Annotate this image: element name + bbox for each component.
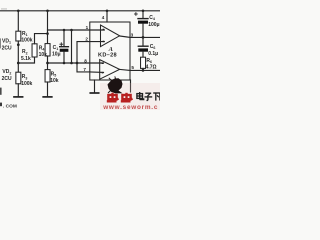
svg-text:C4: C4 (149, 15, 155, 21)
resistor R6 (141, 57, 146, 68)
label pin 3 (131, 33, 134, 38)
svg-text:5.1k: 5.1k (21, 56, 31, 62)
wire pin4 (106, 11, 108, 22)
label pin 4 (102, 15, 105, 20)
junction C1-y63 (63, 62, 66, 65)
plus mark C4 (135, 13, 138, 16)
watermark char chong1 (107, 93, 119, 102)
junction x71-y63 (70, 62, 73, 65)
label R4 10k (39, 45, 48, 58)
label C4 100u (148, 15, 159, 28)
label VD2 2CU (2, 69, 12, 82)
wire top V+ rail (0, 10, 160, 12)
label pin 5 (131, 65, 134, 70)
junction x47 (46, 32, 49, 35)
stray mark top-left (1, 8, 7, 9)
input mark A2 top (102, 63, 104, 65)
input mark A1 top (103, 29, 105, 31)
junction rail-pin4 (106, 10, 109, 13)
svg-text:100k: 100k (21, 81, 32, 87)
svg-text:100k: 100k (21, 37, 32, 43)
label R1 100k (21, 31, 32, 44)
junction R4 R5 node B (46, 62, 49, 65)
svg-text:4: 4 (102, 15, 105, 20)
svg-text:R1: R1 (22, 31, 28, 37)
wire below box right (130, 80, 132, 92)
resistor R2 (32, 44, 37, 57)
resistor R5 (45, 70, 50, 82)
svg-text:1: 1 (86, 25, 89, 30)
svg-text:10k: 10k (50, 78, 59, 84)
wire pin5 output net (130, 69, 160, 71)
svg-text:VD1: VD1 (2, 39, 11, 45)
svg-text:R6: R6 (146, 58, 152, 64)
resistor R4 (45, 44, 50, 56)
junction rail-C4 (142, 10, 145, 13)
capacitor C1 (60, 30, 69, 63)
capacitor C6 (138, 37, 148, 57)
label pin 8 (84, 58, 87, 63)
wire R6 to pin5 net (142, 68, 144, 70)
svg-text:www.seworm.c: www.seworm.c (102, 104, 158, 110)
wire R4 to R5 (47, 56, 49, 70)
label VD1 2CU (2, 39, 12, 52)
label R3 100k (21, 74, 32, 87)
wire x47 branch (47, 11, 49, 44)
label pin 1 (86, 25, 89, 30)
junction x77-y63 (76, 62, 79, 65)
corner text COM (0, 103, 17, 110)
label R6 4.7ohm (146, 58, 157, 71)
wire x71 vertical (71, 30, 73, 63)
wire left branch lower (17, 84, 19, 97)
wire pin3 output net (130, 36, 160, 38)
watermark char xia (153, 93, 160, 101)
ground G3 (90, 92, 98, 94)
svg-text:4.7Ω: 4.7Ω (146, 64, 157, 70)
wire pin1 net (48, 29, 105, 31)
label pin 2 (85, 37, 88, 42)
capacitor C4 (138, 11, 148, 38)
svg-text:10k: 10k (39, 52, 48, 58)
plus mark C1 (60, 43, 63, 46)
input mark A2 bottom (102, 72, 104, 74)
svg-text:100μ: 100μ (148, 22, 159, 28)
op-amp A2 triangle (100, 60, 120, 80)
svg-text:2: 2 (85, 37, 88, 42)
svg-text:7: 7 (83, 67, 86, 72)
svg-text:C1: C1 (53, 45, 59, 51)
junction pin1-C1 (63, 29, 66, 32)
junction rail-x47 (46, 10, 49, 13)
wire A2 input7 inside (90, 71, 104, 74)
input mark A1 bottom (103, 41, 105, 43)
cut-off mark left edge bottom (0, 88, 2, 95)
svg-text:5: 5 (131, 65, 134, 70)
svg-text:VD2: VD2 (2, 69, 11, 75)
svg-text:R5: R5 (51, 71, 57, 77)
watermark char zi (145, 93, 153, 100)
wire R5 to ground (47, 82, 49, 97)
watermark char dian (137, 92, 144, 100)
wire node B net y63 (48, 62, 104, 64)
svg-text:0.1μ: 0.1μ (148, 51, 158, 57)
wire IC ground pin (94, 80, 96, 93)
junction R6-pin5 (142, 69, 145, 72)
wire left branch middle (17, 41, 19, 72)
junction pin3-C4 (142, 36, 145, 39)
svg-text:KD–28: KD–28 (98, 53, 117, 59)
node A junction (17, 62, 20, 65)
svg-text:R2: R2 (22, 49, 28, 55)
svg-text:. COM: . COM (3, 103, 17, 109)
label A (108, 46, 113, 53)
resistor R3 (16, 72, 21, 84)
label KD-28 (98, 53, 117, 59)
op-amp U1 KD-28 box (90, 22, 130, 80)
svg-text:R3: R3 (22, 74, 28, 80)
label R5 10k (50, 71, 59, 84)
svg-text:2CU: 2CU (2, 76, 12, 82)
svg-text:R4: R4 (39, 45, 45, 51)
wire pin7 net (77, 63, 90, 72)
wire A2 output (120, 69, 130, 70)
wire R2 top to x47 (35, 34, 48, 44)
svg-text:8: 8 (84, 58, 87, 63)
label C6 0.1u (148, 44, 158, 57)
wire left branch upper (17, 11, 19, 31)
wire pin2 net (77, 42, 104, 63)
wire A1 output (120, 36, 130, 37)
node VD1 junction (17, 43, 20, 46)
svg-text:2CU: 2CU (2, 45, 12, 51)
label R2 5.1k (21, 49, 31, 62)
watermark bug graphic (108, 76, 123, 93)
svg-text:10μ: 10μ (52, 52, 61, 58)
svg-text:C6: C6 (150, 44, 156, 50)
cut-off mark left edge VD1 (0, 38, 2, 48)
wire node A to R2 (18, 57, 34, 63)
watermark haze (100, 83, 160, 110)
ground G1 (14, 96, 23, 98)
watermark char chong2 (121, 93, 133, 102)
resistor R1 (16, 31, 21, 41)
svg-text:3: 3 (131, 33, 134, 38)
watermark url (102, 104, 158, 111)
watermark char zai partial (159, 93, 161, 101)
op-amp A1 triangle (101, 25, 120, 47)
junction rail-x18 (17, 10, 20, 13)
junction pin1-x71 (70, 29, 73, 32)
ground G2 (43, 96, 52, 98)
label pin 7 (83, 67, 86, 72)
label C1 10u (52, 45, 61, 58)
